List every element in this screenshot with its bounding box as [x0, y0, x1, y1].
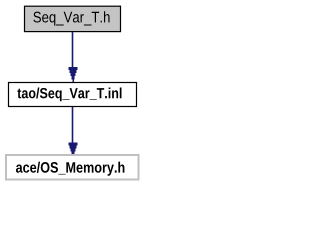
wire from Seq_Var_T.h to tao/Seq_Var_T.inl	[72, 32, 74, 67]
node tao/Seq_Var_T.inl	[9, 83, 137, 107]
arrowhead into tao/Seq_Var_T.inl	[69, 67, 78, 82]
arrowhead into ace/OS_Memory.h	[69, 143, 78, 156]
wire from tao/Seq_Var_T.inl to ace/OS_Memory.h	[72, 107, 74, 143]
node Seq_Var_T.h (root, gray filled box)	[25, 6, 121, 31]
node ace/OS_Memory.h	[6, 155, 139, 180]
